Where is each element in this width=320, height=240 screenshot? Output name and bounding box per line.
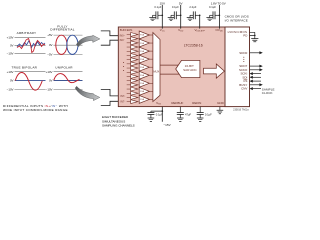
wire/arrow: BUSY xyxy=(250,84,260,86)
svg-text:GND: GND xyxy=(217,101,225,105)
svg-text:0.1µF: 0.1µF xyxy=(205,113,212,117)
svg-text:15V: 15V xyxy=(160,2,165,6)
node: VSS junction xyxy=(162,110,164,112)
svg-text:BUFFERS: BUFFERS xyxy=(120,28,133,32)
arrow: ADC output bus to I/O block xyxy=(204,64,225,78)
svg-text:+5V: +5V xyxy=(47,33,52,37)
svg-text:2.2µF: 2.2µF xyxy=(189,5,196,9)
waveform plot: UNIPOLAR input xyxy=(46,66,83,92)
svg-text:PD: PD xyxy=(243,34,247,38)
svg-text:0V: 0V xyxy=(10,43,14,47)
node: VDD 5V supply junction xyxy=(180,15,182,17)
wire/arrow: CNV xyxy=(253,88,261,90)
svg-text:IN0+: IN0+ xyxy=(120,34,126,38)
ground xyxy=(187,15,194,20)
svg-text:SDO0: SDO0 xyxy=(239,51,247,55)
svg-text:0V: 0V xyxy=(49,79,53,83)
ground xyxy=(148,115,155,122)
svg-text:REFIN: REFIN xyxy=(192,101,201,105)
wire: OVDD supply rail xyxy=(218,15,220,28)
op-amp IC U1 LTC2358-16 body xyxy=(118,27,249,107)
waveform plot: FULLY DIFFERENTIAL input xyxy=(47,24,82,56)
wire/arrow: CS xyxy=(253,80,261,82)
svg-text:IN0−: IN0− xyxy=(120,38,125,42)
svg-text:−5V: −5V xyxy=(47,53,52,57)
input buffer amplifiers (left column) xyxy=(131,33,138,104)
caption: differential inputs note xyxy=(3,104,68,112)
multiplexer MUX xyxy=(153,33,160,102)
wire: MUX to ADC (lower) xyxy=(160,73,179,75)
ground xyxy=(149,15,156,20)
waveform plot: ARBITRARY input xyxy=(7,31,46,55)
svg-text:ARBITRARY: ARBITRARY xyxy=(17,31,37,35)
ground symbol at PD xyxy=(251,39,258,42)
wire: MUX to ADC (upper) xyxy=(160,64,178,66)
svg-text:DIFFERENTIAL: DIFFERENTIAL xyxy=(50,28,74,32)
wire/arrow: SDO7 xyxy=(250,65,260,67)
node: OVDD supply junction xyxy=(219,15,221,17)
capacitor C4 0.1uF xyxy=(215,14,219,16)
svg-text:REFBUF: REFBUF xyxy=(171,101,183,105)
capacitor C7 0.1uF on REFIN xyxy=(199,107,201,113)
caption: eight buffered simultaneous sampling channels xyxy=(102,115,135,127)
ground xyxy=(206,15,213,20)
wires: channel amps to MUX xyxy=(149,34,153,36)
wire: IN0+ / IN0- input fork xyxy=(101,31,119,45)
wire: LVDS/CMOS and PD tied to ground xyxy=(250,32,255,38)
svg-text:CLOCK: CLOCK xyxy=(262,91,273,95)
capacitor C1 0.1uF xyxy=(158,14,162,16)
wire/arrow: SDI xyxy=(253,76,261,78)
svg-text:UNIPOLAR: UNIPOLAR xyxy=(55,66,73,70)
ADC block: 16-BIT SAR ADC xyxy=(176,60,200,77)
wire: VDDLBYP bypass rail xyxy=(199,15,201,28)
wire/arrow: SCKI xyxy=(253,73,261,75)
ellipsis dots for channels 1-6 xyxy=(123,62,124,63)
svg-text:−10V: −10V xyxy=(46,88,53,92)
buffer input stub wires xyxy=(127,33,131,35)
svg-text:TRUE BIPOLAR: TRUE BIPOLAR xyxy=(11,66,37,70)
svg-text:+10V: +10V xyxy=(7,70,14,74)
svg-text:LTC2358-16: LTC2358-16 xyxy=(184,44,203,48)
svg-text:235816 TA01a: 235816 TA01a xyxy=(233,108,249,111)
channel amplifiers (right column) xyxy=(139,31,149,103)
LVDS/CMOS I/O digital section box xyxy=(225,27,250,107)
svg-text:SAR ADC: SAR ADC xyxy=(183,68,197,72)
svg-text:SAMPLING CHANNELS: SAMPLING CHANNELS xyxy=(102,124,135,128)
wire: VDD 5V supply rail xyxy=(180,5,182,29)
ground xyxy=(168,15,175,20)
wire: VCC 15V supply rail xyxy=(161,5,163,29)
svg-text:0V: 0V xyxy=(10,79,14,83)
capacitor C2 0.1uF xyxy=(176,14,180,16)
capacitor C5 0.1uF on VSS xyxy=(150,111,152,112)
ellipsis dots SDO0..SDO7 xyxy=(243,57,244,58)
wire/arrow: SDO0 xyxy=(250,52,260,54)
node: VCC 15V supply junction xyxy=(162,15,164,17)
svg-text:0.1µF: 0.1µF xyxy=(156,113,163,117)
wire/arrow: SCKO xyxy=(250,69,260,71)
svg-text:+10V: +10V xyxy=(7,35,14,39)
svg-text:WIDE INPUT COMMON-MODE RANGE: WIDE INPUT COMMON-MODE RANGE xyxy=(3,108,68,112)
svg-text:1.8V TO 5V: 1.8V TO 5V xyxy=(211,2,226,6)
arrow: top gray swoosh to IN0 xyxy=(76,35,100,46)
svg-text:+10V: +10V xyxy=(46,70,53,74)
svg-text:CNV: CNV xyxy=(241,87,247,91)
svg-text:IN7+: IN7+ xyxy=(120,94,126,98)
svg-text:0.1µF: 0.1µF xyxy=(172,5,179,9)
capacitor C3 2.2uF xyxy=(195,14,199,16)
wire: VSS pin to -15V supply xyxy=(151,107,162,122)
svg-text:0.1µF: 0.1µF xyxy=(209,5,216,9)
svg-text:5V: 5V xyxy=(179,2,183,6)
svg-text:−10V: −10V xyxy=(7,51,14,55)
node: PD/LVDS-CMOS junction xyxy=(254,35,256,37)
svg-text:IN7−: IN7− xyxy=(120,99,125,103)
capacitor C6 47uF on REFBUF xyxy=(179,107,181,113)
wire: IN7+ / IN7- input fork xyxy=(101,89,119,105)
svg-text:I/O INTERFACE: I/O INTERFACE xyxy=(225,18,248,22)
svg-text:47µF: 47µF xyxy=(185,113,192,117)
svg-text:−10V: −10V xyxy=(7,88,14,92)
arrow: bottom gray swoosh to IN7 xyxy=(75,86,100,100)
svg-text:MUX: MUX xyxy=(154,70,160,74)
node: VDDLBYP bypass junction xyxy=(199,15,201,17)
ground xyxy=(197,115,204,122)
ground at GND pin xyxy=(219,107,221,111)
waveform plot: TRUE BIPOLAR input xyxy=(7,66,46,92)
overline on CS xyxy=(244,78,248,80)
svg-text:0V: 0V xyxy=(49,43,53,47)
svg-text:−15V: −15V xyxy=(163,123,171,127)
svg-text:0.1µF: 0.1µF xyxy=(154,5,161,9)
ground xyxy=(177,115,184,122)
